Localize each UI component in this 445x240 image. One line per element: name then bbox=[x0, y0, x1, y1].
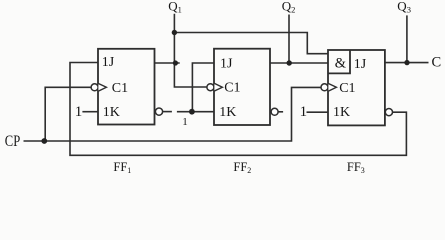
svg-text:C1: C1 bbox=[112, 81, 128, 96]
svg-text:1J: 1J bbox=[354, 57, 367, 72]
svg-text:1J: 1J bbox=[102, 55, 115, 70]
svg-text:C: C bbox=[432, 55, 442, 71]
svg-text:C1: C1 bbox=[224, 81, 240, 96]
svg-text:CP: CP bbox=[5, 133, 20, 150]
svg-text:1: 1 bbox=[75, 104, 83, 120]
svg-text:1K: 1K bbox=[333, 105, 350, 120]
svg-text:C1: C1 bbox=[339, 81, 355, 96]
svg-text:1J: 1J bbox=[220, 57, 233, 72]
svg-text:&: & bbox=[335, 56, 347, 72]
svg-text:1: 1 bbox=[300, 104, 308, 120]
svg-text:1: 1 bbox=[182, 116, 188, 128]
svg-text:1K: 1K bbox=[103, 105, 120, 120]
svg-text:1K: 1K bbox=[219, 105, 236, 120]
